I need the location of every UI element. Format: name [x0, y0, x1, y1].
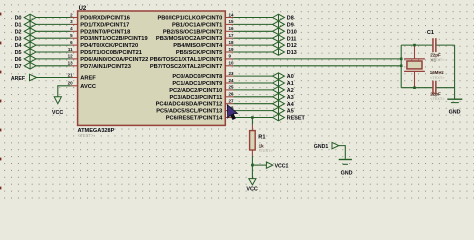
wire AVCC to VCC	[58, 86, 78, 97]
wire PC6 to RESET	[225, 117, 272, 119]
svg-text:PC5/ADC5/SCL/PCINT13: PC5/ADC5/SCL/PCINT13	[156, 109, 222, 115]
svg-text:A2: A2	[287, 88, 294, 94]
svg-text:PD6/AIN0/OC0A/PCINT22: PD6/AIN0/OC0A/PCINT22	[80, 57, 148, 63]
svg-text:AREF: AREF	[11, 76, 25, 82]
svg-text:19: 19	[229, 47, 235, 52]
terminal RESET	[273, 114, 306, 121]
svg-text:18: 18	[229, 40, 235, 45]
sheet edge ticks	[0, 13, 1, 190]
svg-text:PC4/ADC4/SDA/PCINT12: PC4/ADC4/SDA/PCINT12	[156, 102, 223, 108]
wire PB4 to D12	[225, 44, 272, 46]
crystal X1	[404, 45, 425, 88]
svg-text:GND: GND	[341, 171, 353, 177]
label X1 TEXT	[430, 57, 445, 63]
svg-text:GND: GND	[449, 110, 461, 116]
terminal D6	[15, 56, 36, 63]
svg-text:A4: A4	[287, 102, 294, 108]
wire PC2 to A2	[225, 89, 272, 91]
terminal D0	[15, 14, 36, 21]
svg-text:26: 26	[229, 92, 235, 97]
svg-text:R1: R1	[258, 134, 265, 140]
mouse cursor	[227, 105, 237, 120]
svg-text:PB0/ICP1/CLKO/PCINT0: PB0/ICP1/CLKO/PCINT0	[158, 16, 223, 22]
terminal D1	[15, 21, 36, 28]
svg-text:PB3/MOSI/OC2A/PCINT3: PB3/MOSI/OC2A/PCINT3	[156, 36, 222, 42]
power terminal VCC bottom down arrow	[249, 179, 256, 185]
svg-text:<TEXT>: <TEXT>	[430, 76, 445, 80]
terminal D11	[273, 35, 297, 42]
terminal GND1	[332, 142, 339, 148]
svg-text:PC6/RESET/PCINT14: PC6/RESET/PCINT14	[166, 116, 223, 122]
svg-text:D10: D10	[287, 29, 297, 35]
terminal D5	[15, 49, 36, 56]
svg-text:D7: D7	[15, 64, 22, 70]
power terminal VCC down arrow	[54, 97, 61, 104]
value 16MHz X1	[430, 70, 445, 80]
wire PB3 to D11	[225, 37, 272, 39]
svg-text:16MHz: 16MHz	[430, 70, 445, 75]
svg-text:PB6/TOSC1/XTAL1/PCINT6: PB6/TOSC1/XTAL1/PCINT6	[150, 57, 222, 63]
svg-text:D0: D0	[15, 16, 22, 22]
wire D6 to PD6	[36, 58, 78, 60]
svg-text:PB5/SCK/PCINT5: PB5/SCK/PCINT5	[176, 50, 222, 56]
wire PC0 to A0	[225, 75, 272, 77]
svg-text:D2: D2	[15, 29, 22, 35]
svg-text:PC0/ADC0/PCINT8: PC0/ADC0/PCINT8	[172, 74, 222, 80]
wire to VCC1 terminal	[252, 164, 266, 166]
svg-text:<TEXT>: <TEXT>	[259, 149, 274, 153]
IC U2 ATMEGA328P body	[78, 11, 226, 125]
svg-text:<TEXT>: <TEXT>	[78, 133, 94, 138]
terminal D10	[273, 28, 297, 35]
terminal VCC1	[266, 162, 272, 168]
wire D4 to PD4	[36, 44, 78, 46]
svg-text:PD5/T1/OC0B/PCINT21: PD5/T1/OC0B/PCINT21	[80, 50, 142, 56]
wire C1 top	[401, 44, 454, 46]
terminal D13	[273, 49, 297, 56]
svg-text:PD4/T0/XCK/PCINT20: PD4/T0/XCK/PCINT20	[80, 43, 138, 49]
wire AREF	[37, 77, 78, 79]
wire PB2 to D10	[225, 30, 272, 32]
svg-text:10: 10	[229, 61, 235, 66]
wire D1 to PD1	[36, 23, 78, 25]
svg-text:VCC: VCC	[246, 187, 257, 193]
svg-text:X1: X1	[430, 57, 436, 63]
svg-text:A3: A3	[287, 95, 294, 101]
wire PB7 XTAL2	[225, 65, 401, 67]
terminal A5	[273, 107, 294, 114]
svg-text:PC3/ADC3/PCINT11: PC3/ADC3/PCINT11	[170, 95, 223, 101]
svg-text:PB1/OC1A/PCINT1: PB1/OC1A/PCINT1	[172, 22, 222, 28]
wire D7 to PD7	[36, 65, 78, 67]
wire D5 to PD5	[36, 51, 78, 53]
ground symbol GND1	[339, 160, 352, 165]
svg-text:D4: D4	[15, 43, 22, 49]
svg-text:12: 12	[68, 54, 74, 59]
svg-text:U2: U2	[79, 6, 87, 12]
svg-text:1k: 1k	[259, 143, 265, 148]
terminal A4	[273, 100, 294, 107]
resistor R1	[250, 125, 256, 156]
wire PB5 to D13	[225, 51, 272, 53]
wire GND1	[339, 146, 346, 159]
ground symbol right	[447, 99, 462, 102]
terminal D9	[273, 21, 294, 28]
wire PC1 to A1	[225, 82, 272, 84]
wire D0 to PD0	[36, 17, 78, 19]
svg-text:VCC: VCC	[52, 110, 63, 116]
svg-text:20: 20	[68, 81, 74, 86]
svg-text:<TEXT>: <TEXT>	[430, 97, 445, 101]
svg-text:A0: A0	[287, 74, 294, 80]
svg-text:VCC1: VCC1	[275, 163, 289, 169]
wire R1 to VCC	[251, 156, 253, 179]
svg-text:27: 27	[229, 99, 235, 104]
terminal A0	[273, 73, 294, 80]
terminal D12	[273, 42, 297, 49]
junction dot RESET	[251, 116, 254, 119]
wire PC4 to A4	[225, 103, 272, 105]
wire RESET to R1	[251, 118, 253, 125]
svg-text:D6: D6	[15, 57, 22, 63]
terminal D8	[273, 14, 294, 21]
wire D3 to PD3	[36, 37, 78, 39]
wire D2 to PD2	[36, 30, 78, 32]
capacitor C2	[432, 81, 436, 95]
wire PB1 to D9	[225, 23, 272, 25]
svg-text:D12: D12	[287, 43, 297, 49]
svg-text:A1: A1	[287, 81, 294, 87]
wire PB6 XTAL1	[225, 58, 401, 60]
svg-text:PC1/ADC1/PCINT9: PC1/ADC1/PCINT9	[172, 81, 222, 87]
svg-text:D11: D11	[287, 36, 297, 42]
svg-text:PB2/SS/OC1B/PCINT2: PB2/SS/OC1B/PCINT2	[163, 29, 222, 35]
terminal A1	[273, 80, 294, 87]
svg-text:PC2/ADC2/PCINT10: PC2/ADC2/PCINT10	[169, 88, 222, 94]
wire C2 bottom	[401, 87, 454, 89]
terminal AREF	[30, 74, 37, 80]
svg-text:D9: D9	[287, 23, 294, 29]
svg-text:11: 11	[68, 47, 73, 52]
svg-text:17: 17	[229, 33, 235, 38]
terminal D3	[15, 35, 36, 42]
svg-text:D3: D3	[15, 36, 22, 42]
svg-text:13: 13	[68, 61, 74, 66]
svg-text:PD7/AIN1/PCINT23: PD7/AIN1/PCINT23	[80, 64, 131, 70]
svg-text:22pF: 22pF	[430, 52, 441, 57]
svg-text:PB4/MISO/PCINT4: PB4/MISO/PCINT4	[173, 43, 223, 49]
svg-text:15: 15	[229, 19, 235, 24]
wire XTAL left rail	[400, 45, 402, 88]
terminal D2	[15, 28, 36, 35]
svg-text:D13: D13	[287, 50, 297, 56]
svg-text:RESET: RESET	[287, 116, 306, 122]
capacitor C1	[432, 38, 436, 52]
wire PC5 to A5	[225, 110, 272, 112]
svg-text:PD0/RXD/PCINT16: PD0/RXD/PCINT16	[80, 16, 130, 22]
svg-text:AREF: AREF	[80, 76, 96, 82]
svg-text:A5: A5	[287, 109, 294, 115]
svg-text:D5: D5	[15, 50, 22, 56]
svg-text:PD3/INT1/OC2B/PCINT19: PD3/INT1/OC2B/PCINT19	[80, 36, 147, 42]
svg-text:23: 23	[229, 71, 235, 76]
svg-text:21: 21	[68, 72, 74, 77]
terminal D4	[15, 42, 36, 49]
junction dot VCC1	[251, 164, 254, 167]
svg-text:PD1/TXD/PCINT17: PD1/TXD/PCINT17	[80, 22, 129, 28]
terminal A3	[273, 94, 294, 101]
junction dots crystal	[400, 44, 416, 89]
svg-text:14: 14	[229, 12, 235, 17]
terminal A2	[273, 87, 294, 94]
svg-text:AVCC: AVCC	[80, 84, 96, 90]
svg-text:GND1: GND1	[314, 144, 329, 150]
svg-text:D8: D8	[287, 16, 294, 22]
svg-text:22pF: 22pF	[430, 91, 441, 96]
svg-text:PD2/INT0/PCINT18: PD2/INT0/PCINT18	[80, 29, 130, 35]
svg-text:D1: D1	[15, 23, 22, 29]
wire PB0 to D8	[225, 17, 272, 19]
wire PC3 to A3	[225, 96, 272, 98]
terminal D7	[15, 63, 36, 70]
svg-text:25: 25	[229, 85, 235, 90]
svg-text:24: 24	[229, 78, 235, 83]
svg-text:PB7/TOSC2/XTAL2/PCINT7: PB7/TOSC2/XTAL2/PCINT7	[150, 64, 222, 70]
wire right gnd rail	[454, 45, 456, 99]
svg-text:C1: C1	[427, 30, 434, 36]
svg-text:16: 16	[229, 26, 235, 31]
value 22pF C2	[430, 91, 445, 101]
